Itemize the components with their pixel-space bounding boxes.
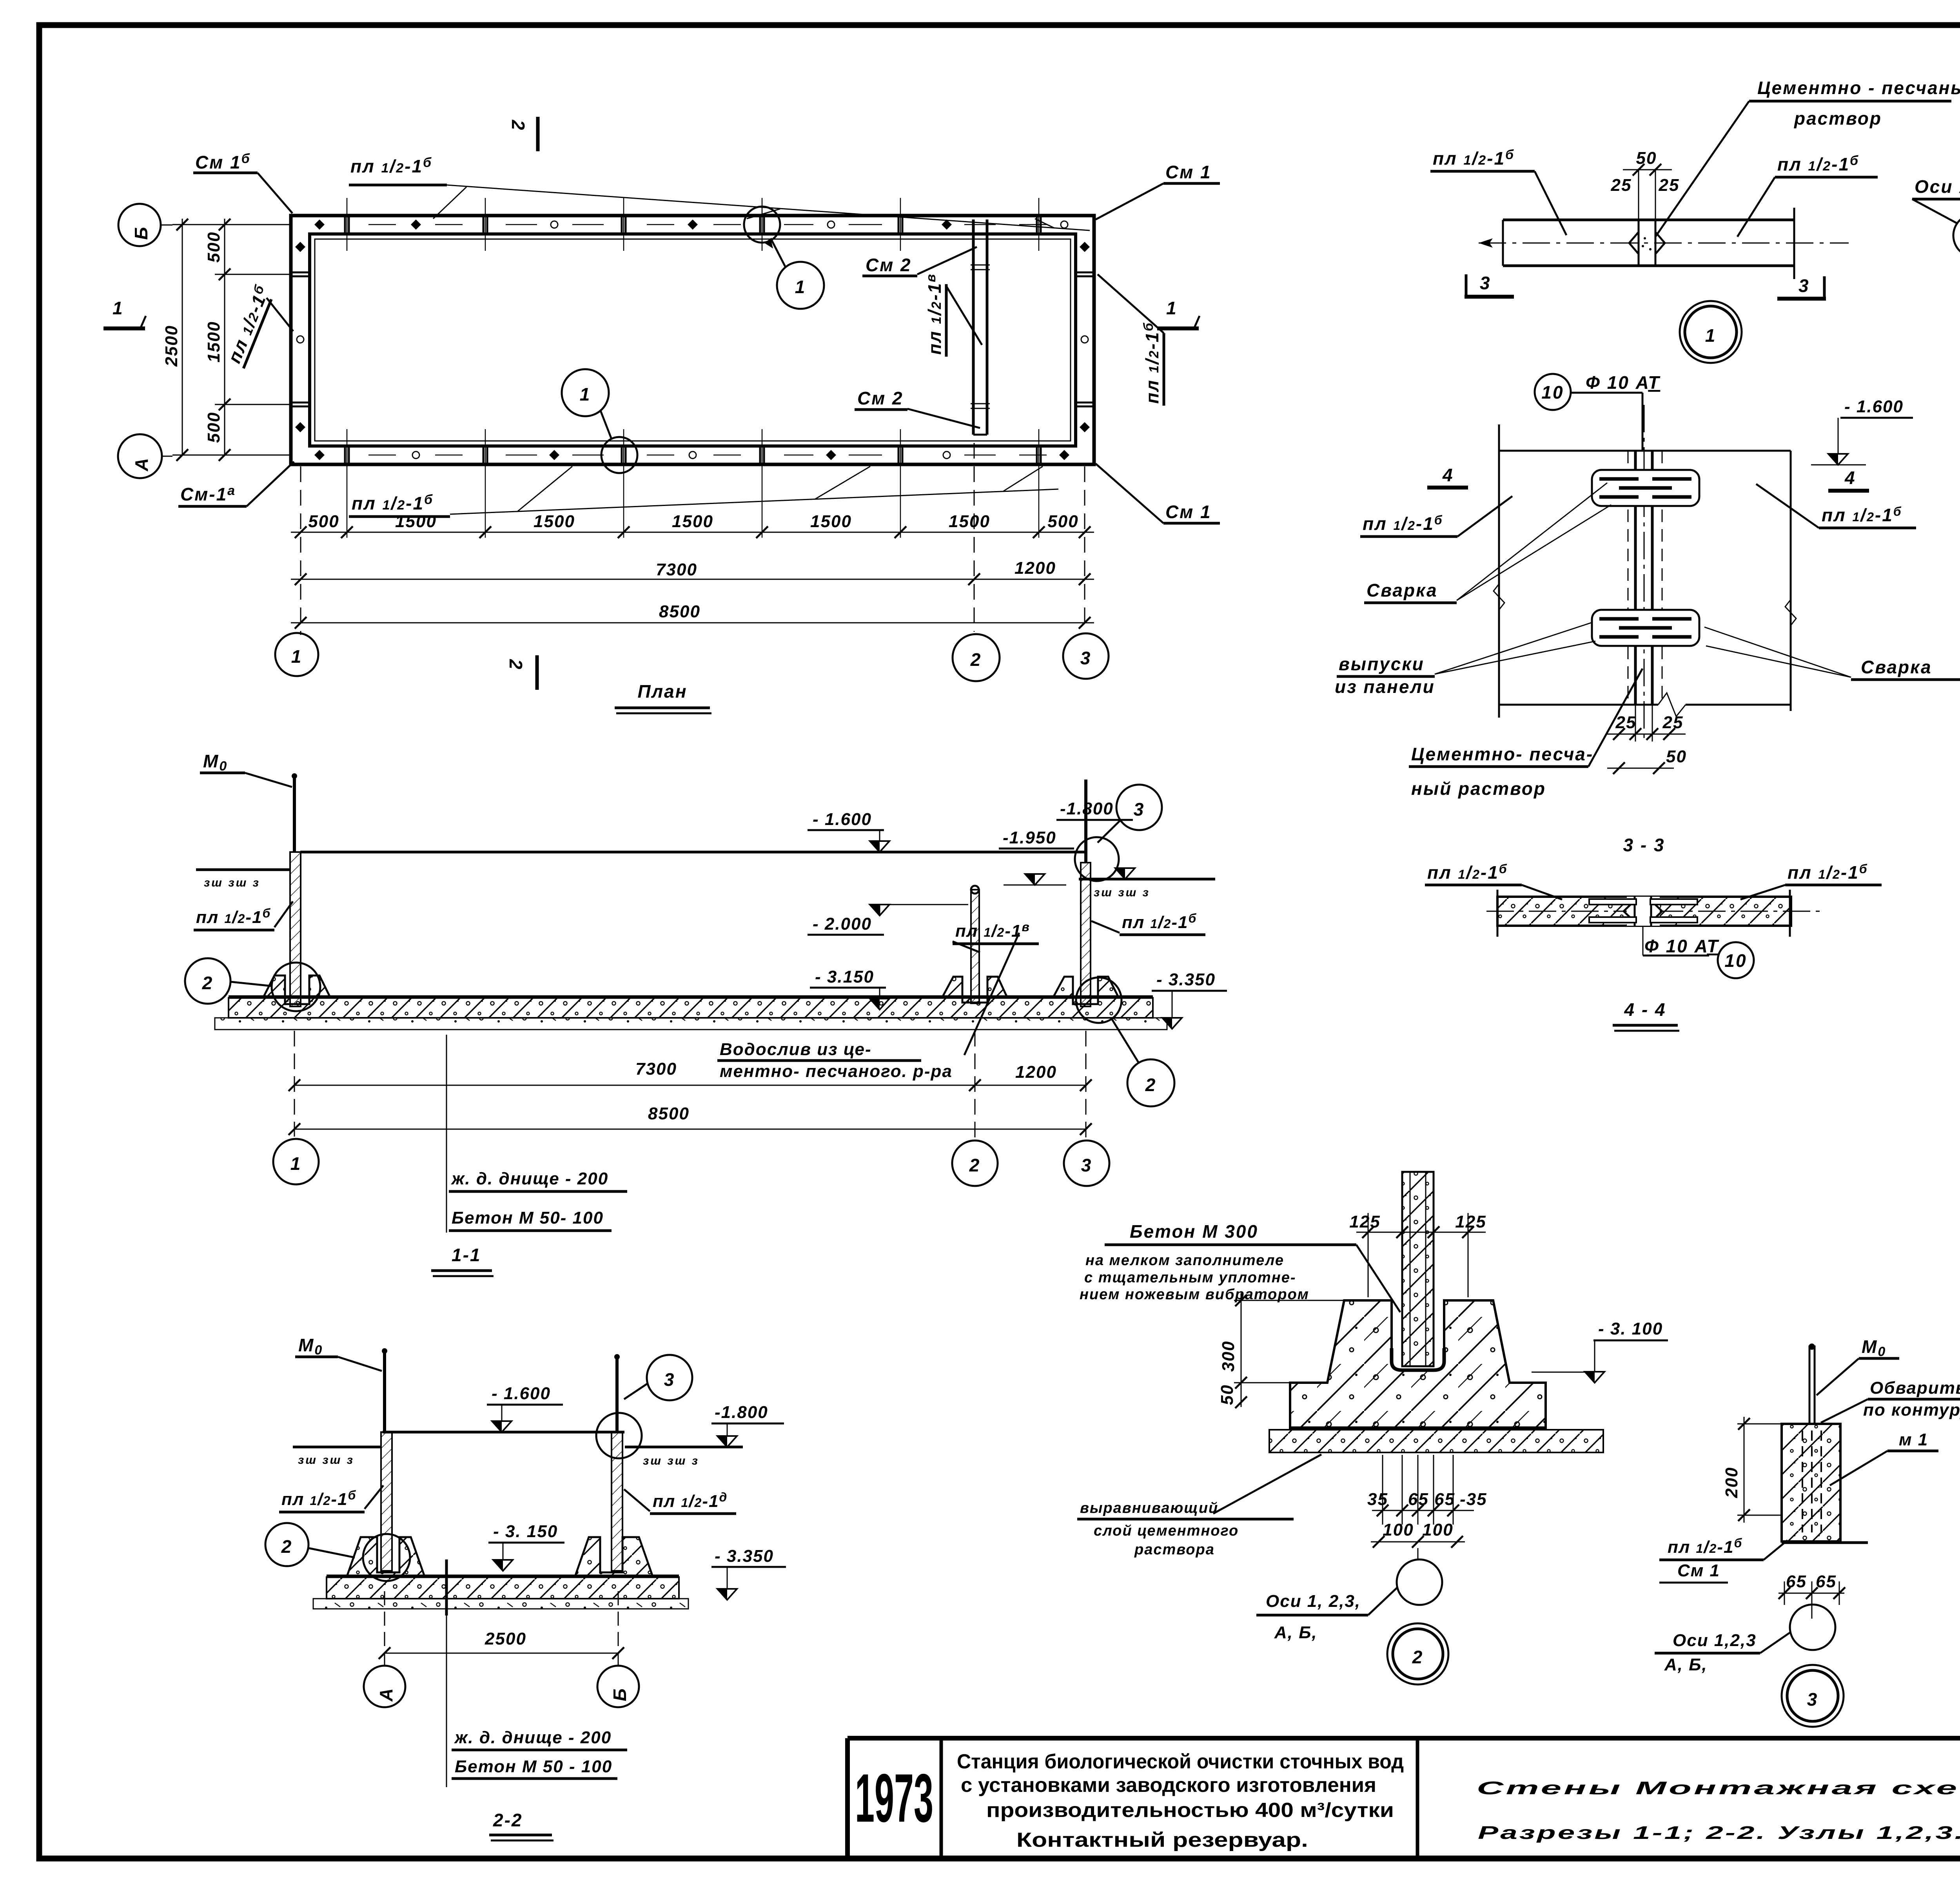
node circle 1 (double) — [1680, 301, 1742, 363]
svg-text:пл 1/2-1б: пл 1/2-1б — [281, 1488, 356, 1509]
wall panel at axis 2 (pl 1/2-1v) — [971, 890, 979, 1003]
svg-text:3: 3 — [664, 1369, 675, 1390]
svg-text:А, Б,: А, Б, — [1274, 1623, 1318, 1642]
svg-text:65 65: 65 65 — [1408, 1490, 1455, 1509]
svg-text:4 - 4: 4 - 4 — [1624, 999, 1666, 1020]
plan outer wall contour — [291, 216, 1094, 464]
node 1 circled joint on top wall — [744, 207, 780, 243]
svg-text:1: 1 — [1166, 298, 1178, 318]
svg-text:пл 1/2-1б: пл 1/2-1б — [350, 155, 432, 176]
svg-text:3: 3 — [1080, 648, 1092, 668]
svg-text:Водослив из це-: Водослив из це- — [720, 1040, 872, 1059]
svg-text:25: 25 — [1659, 176, 1680, 195]
svg-text:- 3. 150: - 3. 150 — [493, 1522, 558, 1541]
svg-text:8500: 8500 — [659, 602, 701, 621]
bottom slab — [229, 995, 1153, 999]
left dims 300 / 50 — [1241, 1293, 1242, 1407]
dim 200 — [1744, 1417, 1745, 1523]
svg-text:Бетон М 50- 100: Бетон М 50- 100 — [452, 1208, 604, 1228]
top wall panel joints — [345, 198, 1041, 251]
wall panels — [381, 1432, 392, 1571]
extension lines to axis circles — [294, 1031, 295, 1137]
axis circle A (left bottom) — [118, 434, 162, 478]
node 1 detail circle + leader (top) — [777, 262, 824, 309]
axis circle 1 — [275, 633, 318, 676]
fence post Mo (double line) — [1809, 1345, 1811, 1424]
svg-text:производительностью 400 м³/су: производительностью 400 м³/сутки — [986, 1799, 1394, 1822]
bottom dims 35 65 65 35 — [1372, 1510, 1474, 1511]
wall panel at axis 1 — [290, 852, 301, 1006]
svg-text:Бетон М 300: Бетон М 300 — [1130, 1221, 1258, 1242]
weld assembly lower — [1592, 610, 1699, 646]
plan inner wall contour — [310, 234, 1076, 446]
plan bottom dimension row 1 (panel pitch) — [291, 532, 1094, 533]
svg-text:раствор: раствор — [1793, 108, 1882, 129]
svg-text:50: 50 — [1666, 747, 1687, 766]
svg-text:1200: 1200 — [1014, 558, 1056, 578]
svg-text:См-1а: См-1а — [180, 483, 236, 504]
svg-text:пл 1/2-1б: пл 1/2-1б — [1822, 504, 1902, 525]
svg-text:М0: М0 — [203, 751, 228, 774]
svg-text:раствора: раствора — [1134, 1541, 1215, 1558]
svg-text:-1.800: -1.800 — [715, 1403, 768, 1422]
svg-text:Оси А,Б: Оси А,Б — [1915, 176, 1960, 197]
callout circle 3 right — [1116, 785, 1162, 830]
svg-text:2: 2 — [506, 659, 526, 671]
node 1 circled joint on bottom wall — [601, 437, 637, 473]
svg-text:Бетон М 50 - 100: Бетон М 50 - 100 — [455, 1757, 612, 1776]
rotated label pl 1/2-1b at left wall — [222, 282, 275, 368]
centre line — [1479, 243, 1849, 244]
dims 100 100 — [1371, 1541, 1465, 1543]
footing at axis 3 — [1053, 977, 1118, 1004]
axis circle 1 (section 1-1) — [273, 1139, 319, 1184]
svg-text:2: 2 — [281, 1536, 293, 1557]
svg-text:1973: 1973 — [855, 1760, 933, 1837]
svg-text:2-2: 2-2 — [493, 1810, 523, 1830]
detail circle node 2 at left footing — [363, 1534, 410, 1581]
svg-text:100: 100 — [1383, 1520, 1414, 1539]
svg-text:пл 1/2-1б: пл 1/2-1б — [1427, 862, 1508, 883]
svg-text:1500: 1500 — [949, 512, 990, 531]
svg-text:1200: 1200 — [1015, 1063, 1057, 1082]
callout circle 2 — [265, 1523, 309, 1566]
svg-text:- 1.600: - 1.600 — [1844, 397, 1904, 416]
axis circle 2 — [953, 634, 1000, 681]
svg-text:300: 300 — [1219, 1341, 1238, 1372]
svg-text:См 1: См 1 — [1165, 502, 1212, 522]
dim 125 125 — [1356, 1232, 1486, 1233]
axes leader circle — [1417, 1548, 1419, 1559]
node 1 detail circle + leader (bottom) — [562, 369, 609, 416]
axis circle 2 (section 1-1) — [952, 1140, 998, 1186]
svg-text:См 1б: См 1б — [195, 151, 251, 172]
lean concrete layer — [215, 1018, 1167, 1030]
fence post at axis 3 — [1084, 780, 1087, 863]
svg-text:7300: 7300 — [635, 1059, 677, 1079]
svg-text:1: 1 — [291, 646, 303, 667]
left wall joints — [291, 272, 310, 274]
svg-text:1: 1 — [290, 1153, 302, 1174]
svg-text:2: 2 — [1145, 1075, 1157, 1095]
svg-text:пл 1/2-1б: пл 1/2-1б — [1363, 513, 1443, 534]
svg-text:пл 1/2-1в: пл 1/2-1в — [955, 920, 1030, 941]
wall erection marks left/right walls — [295, 242, 1090, 432]
svg-text:зш зш з: зш зш з — [1094, 886, 1150, 899]
svg-text:35: 35 — [1367, 1490, 1388, 1509]
svg-text:Сварка: Сварка — [1367, 580, 1438, 600]
svg-text:3: 3 — [1480, 273, 1491, 293]
svg-text:М0: М0 — [1862, 1336, 1886, 1359]
svg-text:А, Б,: А, Б, — [1664, 1655, 1708, 1674]
svg-text:10: 10 — [1541, 382, 1564, 403]
ground lines — [293, 1446, 381, 1449]
svg-text:зш зш з: зш зш з — [298, 1454, 354, 1467]
svg-text:2: 2 — [508, 120, 528, 131]
svg-text:3: 3 — [1807, 1689, 1818, 1710]
dimension 2500 — [385, 1653, 618, 1654]
svg-text:Контактный резервуар.: Контактный резервуар. — [1016, 1829, 1308, 1851]
right wall joints — [1076, 272, 1094, 274]
svg-text:100: 100 — [1422, 1520, 1453, 1539]
svg-text:4: 4 — [1844, 468, 1856, 488]
keyed joint (4-4) — [1627, 897, 1660, 926]
svg-text:1500: 1500 — [395, 512, 437, 531]
label F10AT with circle 10 (4-4) — [1642, 926, 1644, 956]
svg-text:пл 1/2-1д: пл 1/2-1д — [653, 1490, 728, 1511]
svg-text:3: 3 — [1081, 1155, 1093, 1175]
svg-text:ж. д. днище - 200: ж. д. днище - 200 — [451, 1169, 608, 1188]
svg-text:М0: М0 — [298, 1335, 323, 1358]
svg-text:с тщательным уплотне-: с тщательным уплотне- — [1084, 1269, 1296, 1286]
footing left (2-2) — [347, 1537, 425, 1576]
svg-text:с установками заводского изгот: с установками заводского изготовления — [961, 1774, 1376, 1797]
panel band (4-4) — [1497, 897, 1791, 926]
weld assembly upper — [1592, 470, 1699, 506]
svg-text:См 2: См 2 — [857, 388, 904, 408]
svg-text:слой цементного: слой цементного — [1094, 1523, 1239, 1539]
svg-text:Ф 10 АТ: Ф 10 АТ — [1644, 936, 1719, 956]
svg-text:Б: Б — [610, 1687, 630, 1701]
axis circle 3 — [1063, 633, 1109, 679]
svg-text:3 - 3: 3 - 3 — [1623, 835, 1665, 855]
leader line from vodosliv label to axis2 panel — [964, 933, 1019, 1055]
svg-text:1500: 1500 — [810, 512, 852, 531]
wall panel — [1402, 1172, 1434, 1366]
svg-text:пл 1/2-1б: пл 1/2-1б — [1122, 911, 1197, 932]
svg-text:1500: 1500 — [204, 321, 223, 363]
svg-text:Цементно- песча-: Цементно- песча- — [1411, 744, 1593, 764]
svg-text:выравнивающий: выравнивающий — [1080, 1500, 1218, 1516]
svg-text:Обварить: Обварить — [1870, 1378, 1960, 1398]
centerline dashes on walls — [368, 225, 1047, 455]
plan dimension row 3 (8500) — [291, 622, 1094, 624]
svg-text:200: 200 — [1722, 1467, 1741, 1498]
plan dimension row 2 (7300 / 1200) — [291, 579, 1094, 580]
svg-text:500: 500 — [1047, 512, 1078, 531]
svg-text:25: 25 — [1611, 176, 1632, 195]
svg-text:2500: 2500 — [485, 1629, 526, 1648]
fence posts Mo — [383, 1349, 386, 1432]
top of wall line — [300, 851, 1086, 854]
svg-text:- 3.350: - 3.350 — [1156, 970, 1216, 989]
svg-text:7300: 7300 — [656, 560, 697, 579]
svg-text:пл 1/2-1б: пл 1/2-1б — [1668, 1536, 1742, 1557]
axes circle — [1790, 1605, 1835, 1650]
slab (2-2) — [327, 1575, 679, 1578]
svg-text:зш зш з: зш зш з — [643, 1454, 699, 1467]
svg-text:- 1.600: - 1.600 — [813, 810, 872, 829]
panel section — [1782, 1424, 1840, 1541]
top of walls line — [383, 1431, 624, 1434]
wall panel at axis 3 — [1081, 863, 1091, 1006]
rotated label pl 1/2-1b at right wall — [1141, 322, 1164, 406]
svg-text:-1.800: -1.800 — [1060, 799, 1114, 818]
svg-text:Оси 1, 2,3,: Оси 1, 2,3, — [1266, 1592, 1361, 1611]
plan inner face thin line — [315, 239, 1071, 441]
panel outline square — [1498, 424, 1500, 718]
svg-text:1: 1 — [113, 298, 124, 318]
svg-text:Стены Монтажная схема: Стены Монтажная схема План — [1477, 1778, 1960, 1798]
svg-text:65: 65 — [1816, 1572, 1837, 1591]
node circle 2 (double) — [1387, 1623, 1448, 1684]
axis circle B (left top) — [118, 204, 161, 246]
plan left vertical dimensions — [182, 219, 183, 455]
svg-text:Ф 10 АТ: Ф 10 АТ — [1586, 372, 1661, 393]
svg-text:125: 125 — [1349, 1212, 1380, 1231]
ground line right — [1079, 878, 1215, 881]
svg-text:по контуру: по контуру — [1863, 1400, 1960, 1420]
svg-text:Станция биологической очистки: Станция биологической очистки сточных во… — [957, 1750, 1404, 1773]
svg-text:3: 3 — [1134, 799, 1145, 820]
svg-text:Сварка: Сварка — [1861, 657, 1932, 677]
svg-text:А: А — [376, 1687, 396, 1702]
vertical joint lines — [1634, 451, 1637, 705]
svg-text:2: 2 — [970, 649, 982, 670]
wall erection marks bottom — [314, 450, 1069, 460]
section 1-1 dimension row 8500 — [294, 1129, 1086, 1130]
svg-text:2: 2 — [969, 1155, 981, 1175]
svg-text:- 3. 100: - 3. 100 — [1598, 1319, 1663, 1338]
svg-text:25: 25 — [1662, 713, 1684, 732]
svg-text:4: 4 — [1442, 465, 1454, 485]
detail circle node 2 left footing — [272, 963, 320, 1011]
axis circle A (2-2) — [364, 1666, 405, 1707]
svg-text:пл 1/2-1б: пл 1/2-1б — [196, 906, 271, 927]
svg-text:А: А — [131, 457, 152, 471]
callout circle 10 + F10AT — [1535, 374, 1571, 410]
slab joint mark center — [445, 1559, 448, 1616]
svg-text:1500: 1500 — [672, 512, 713, 531]
svg-text:1: 1 — [1705, 325, 1717, 346]
svg-text:1500: 1500 — [534, 512, 575, 531]
svg-text:м 1: м 1 — [1899, 1430, 1928, 1449]
axis circle B (2-2) — [597, 1666, 639, 1707]
footing at axis 2 — [942, 977, 1007, 1003]
leader to vyravnivayushchiy sloy label — [1213, 1454, 1321, 1514]
section 1-1 dimension row 7300/1200 — [294, 1085, 1086, 1086]
svg-text:65: 65 — [1786, 1572, 1807, 1591]
footing right (2-2) — [575, 1537, 653, 1576]
svg-text:Оси 1,2,3: Оси 1,2,3 — [1673, 1631, 1757, 1650]
svg-text:500: 500 — [204, 232, 223, 263]
detail circle node 2 right footing — [1076, 977, 1122, 1023]
svg-text:План: План — [637, 681, 687, 702]
detail circle node 3 at right panel — [596, 1413, 642, 1458]
svg-text:- 2.000: - 2.000 — [813, 914, 872, 934]
svg-text:2500: 2500 — [162, 325, 181, 367]
callout circle 2 left — [185, 958, 230, 1004]
slab below node 2 — [1290, 1427, 1546, 1430]
svg-text:См 1: См 1 — [1677, 1561, 1720, 1580]
svg-text:пл 1/2-1в: пл 1/2-1в — [924, 273, 945, 355]
svg-text:3: 3 — [1798, 276, 1810, 296]
svg-text:пл 1/2-1б: пл 1/2-1б — [1141, 322, 1162, 404]
svg-text:50: 50 — [1636, 149, 1657, 168]
svg-text:выпуски: выпуски — [1339, 654, 1425, 674]
detail circle node 3 right panel top — [1075, 837, 1119, 881]
svg-text:500: 500 — [204, 412, 223, 443]
ground line left — [196, 869, 291, 871]
svg-text:-35: -35 — [1460, 1490, 1487, 1509]
svg-text:Разрезы 1-1; 2-2. Узлы 1,2,3: Разрезы 1-1; 2-2. Узлы 1,2,3. Выборки — [1478, 1822, 1960, 1843]
keyed joint — [1638, 220, 1640, 266]
fence post Mo at axis 1 — [293, 775, 296, 852]
svg-text:- 3.350: - 3.350 — [715, 1547, 774, 1566]
svg-text:пл 1/2-1б: пл 1/2-1б — [1433, 147, 1515, 169]
svg-text:10: 10 — [1724, 950, 1747, 971]
svg-text:ментно- песчаного. р-ра: ментно- песчаного. р-ра — [720, 1062, 953, 1081]
wall erection marks (diamonds/circles) top — [314, 219, 1068, 230]
svg-text:См 2: См 2 — [866, 255, 912, 275]
svg-text:125: 125 — [1455, 1212, 1486, 1231]
svg-text:зш зш з: зш зш з — [204, 876, 260, 889]
svg-text:2: 2 — [1412, 1647, 1424, 1667]
footing at axis 1 — [263, 975, 330, 1004]
svg-text:ный раствор: ный раствор — [1411, 778, 1546, 799]
svg-text:- 3.150: - 3.150 — [815, 967, 874, 986]
slot liner — [1392, 1348, 1444, 1370]
node circle 3 (double) — [1782, 1665, 1844, 1727]
svg-text:на мелком заполнителе: на мелком заполнителе — [1085, 1252, 1284, 1269]
svg-text:-1.950: -1.950 — [1003, 828, 1056, 847]
svg-text:пл 1/2-1б: пл 1/2-1б — [352, 492, 434, 513]
rotated label pl 1/2-1v at partition — [924, 273, 946, 357]
svg-text:1: 1 — [795, 277, 806, 297]
callout circle 2 right — [1127, 1059, 1174, 1106]
svg-text:из панели: из панели — [1335, 676, 1435, 697]
svg-text:ж. д. днище - 200: ж. д. днище - 200 — [454, 1728, 612, 1747]
svg-text:1: 1 — [580, 384, 591, 404]
dim 50 with 25/25 — [1638, 169, 1639, 220]
weld plates (4-4) — [1589, 899, 1636, 905]
svg-text:50: 50 — [1218, 1384, 1237, 1405]
svg-text:Цементно - песчаный: Цементно - песчаный — [1757, 78, 1960, 98]
bottom wall panel joints — [345, 429, 1041, 538]
footing monolith — [1290, 1300, 1546, 1428]
dims 25/25 and 50 (3-3) — [1635, 705, 1636, 742]
partition panel pl 1/2-1v at axis 2 — [972, 219, 975, 435]
panel band — [1503, 219, 1794, 221]
dim 65 65 — [1779, 1593, 1844, 1594]
axis circle 3 (section 1-1) — [1064, 1140, 1109, 1186]
slab material callout lines — [446, 1035, 447, 1233]
svg-text:См 1: См 1 — [1165, 162, 1212, 182]
svg-text:пл 1/2-1б: пл 1/2-1б — [1788, 862, 1868, 883]
svg-text:1-1: 1-1 — [452, 1245, 481, 1265]
svg-text:Б: Б — [131, 226, 151, 240]
svg-text:- 1.600: - 1.600 — [492, 1384, 551, 1403]
svg-text:500: 500 — [308, 512, 339, 531]
svg-text:пл 1/2-1б: пл 1/2-1б — [1777, 153, 1859, 174]
callout circle 3 — [647, 1355, 692, 1400]
svg-text:2: 2 — [202, 973, 214, 993]
svg-text:8500: 8500 — [648, 1104, 690, 1123]
svg-text:25: 25 — [1615, 713, 1637, 732]
